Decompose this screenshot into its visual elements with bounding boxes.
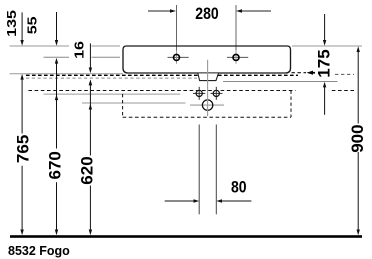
dashed siphon box: right edge (290, 91, 292, 118)
hidden basin bottom continuation right (dashes) (292, 72, 307, 74)
dashed level line (620 area) left of gap (28, 90, 295, 92)
mounting hole right: circle + crosshair (211, 87, 223, 100)
dimension column 765: up arrow at basin underside, shaft to floor, down arrow at floor (20, 74, 23, 235)
svg-text:8532 Fogo: 8532 Fogo (8, 244, 70, 258)
svg-text:900: 900 (348, 124, 367, 152)
svg-text:670: 670 (46, 151, 65, 179)
hidden edge: gray dashed line below (26, 77, 197, 79)
extension line2: 55mm level right segment (92, 56, 121, 58)
dimension 900: up arrow at basin top, shaft with text gap, down arrow at floor (357, 46, 360, 235)
svg-text:765: 765 (14, 135, 33, 163)
svg-text:16: 16 (73, 41, 87, 59)
extension line1: basin top level right segment (292, 45, 362, 47)
drain trapezoid below basin (198, 73, 219, 80)
dimension 80 dim line left segment with right arrow (165, 199, 200, 202)
dimension 16 upper arrow (down, ends at basin underside) (89, 43, 92, 73)
extension line left faucet (280 left) (176, 5, 178, 64)
dimension column 670/55: up arrow at line2, up arrow at 670 level, shaft to floor (55, 58, 58, 235)
extension line2: 55mm level left segment (44, 56, 70, 58)
drain hole: big circle + crosshair (190, 100, 224, 110)
dashed siphon box: bottom edge (123, 116, 291, 118)
dimension 80 dim line right segment with left arrow (216, 199, 251, 202)
dimension column 620/16: up arrow below gray dash, up arrow at 620 level, shaft to floor (89, 80, 92, 236)
extension line: basin underside level (765/135 datum) (10, 73, 123, 75)
dimension 16 lower arrow (up, at gray dashed line) (89, 80, 92, 86)
faucet hole right: crosshair + bold circle (227, 50, 248, 64)
dashed siphon box: left edge (122, 94, 124, 117)
dimension 175 bottom arrow (up) with tail (323, 82, 326, 115)
dimension 280 dim line left segment with right-pointing arrow (148, 9, 176, 13)
dimension 175 top arrow (down) (323, 14, 326, 46)
svg-text:280: 280 (195, 5, 218, 23)
extension line: 620 level (gray) (82, 102, 186, 104)
drain centerline (vertical gray) (207, 60, 209, 116)
extension lines for 80 dim (verticals below drain) (198, 125, 200, 215)
extension line1: basin top level mid segment (92, 45, 121, 47)
bold left-pointing arrow on hidden line right (307, 71, 316, 75)
dashes right of bold arrow (335, 73, 354, 75)
extension line right faucet (280 right) (235, 5, 237, 64)
faucet hole left: crosshair + bold circle (168, 50, 189, 64)
extension line: 175 bottom level (gray) (223, 81, 337, 83)
basin outline (front view, rounded rectangle) (123, 46, 291, 73)
dimension 280 dim line right segment with left-pointing arrow (236, 9, 271, 13)
extension line1: basin top level left segment (10, 45, 69, 47)
svg-text:80: 80 (231, 178, 247, 196)
mounting hole left: circle + crosshair (193, 87, 205, 100)
svg-text:55: 55 (26, 17, 40, 35)
svg-text:175: 175 (315, 49, 334, 77)
dimension 135 top arrow (down) (20, 12, 23, 45)
hidden edge: bold dashed line just below basin bottom (26, 74, 298, 76)
dimension 55 top arrow (down) (55, 12, 58, 46)
dashed level line right segment (332, 90, 355, 92)
extension line: 670 level (gray) (43, 93, 180, 95)
floor line (thick) (10, 235, 362, 238)
svg-text:135: 135 (5, 10, 19, 37)
svg-text:620: 620 (78, 156, 97, 184)
